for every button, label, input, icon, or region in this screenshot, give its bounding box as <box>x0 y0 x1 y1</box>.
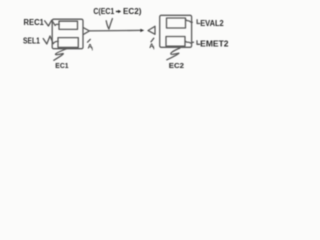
svg-text:REC1: REC1 <box>24 18 45 27</box>
svg-text:EMET2: EMET2 <box>200 40 229 49</box>
svg-text:C(EC1: C(EC1 <box>93 7 114 16</box>
svg-text:EC2: EC2 <box>169 61 184 70</box>
svg-text:SEL1: SEL1 <box>23 37 40 46</box>
svg-text:i: i <box>153 46 154 51</box>
svg-text:i: i <box>92 46 93 51</box>
svg-text:EVAL2: EVAL2 <box>200 19 224 28</box>
svg-text:EC1: EC1 <box>55 61 68 70</box>
svg-text:EC2): EC2) <box>123 7 142 16</box>
